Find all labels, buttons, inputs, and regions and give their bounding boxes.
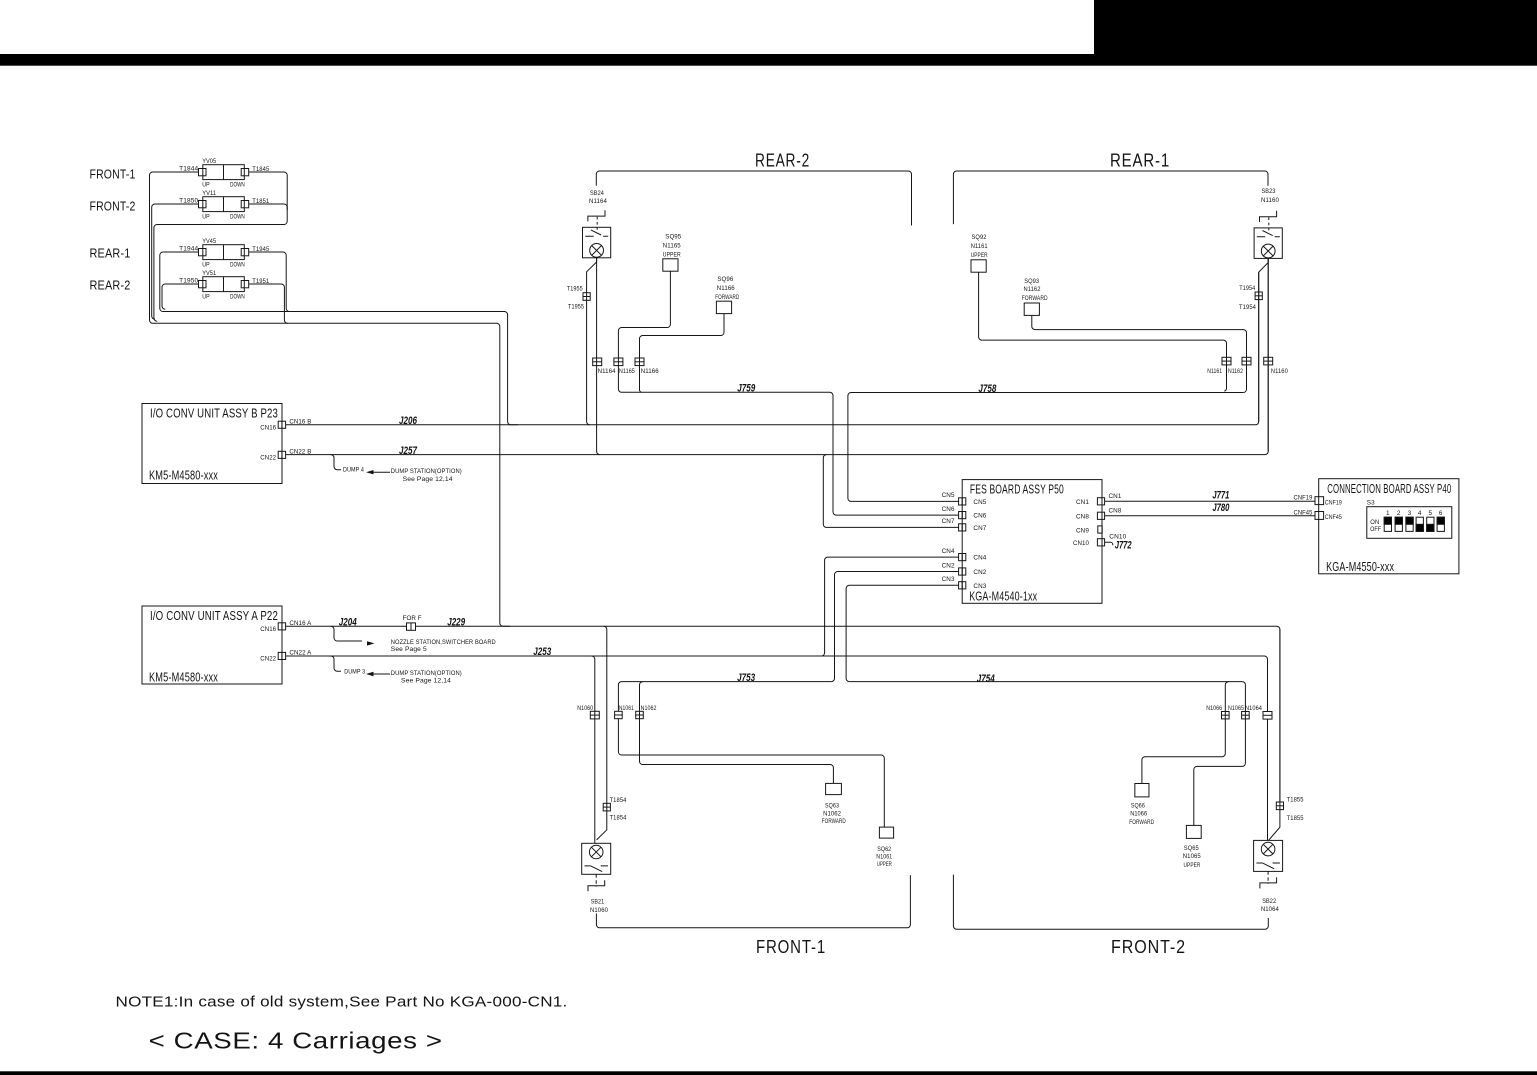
- svg-text:CNF19: CNF19: [1325, 499, 1342, 506]
- svg-text:REAR-1: REAR-1: [90, 247, 131, 261]
- wire J780: [1105, 515, 1315, 517]
- svg-text:FRONT-2: FRONT-2: [1111, 937, 1186, 957]
- sensor SQ95 body: [663, 259, 678, 271]
- svg-text:UP: UP: [202, 182, 210, 189]
- dip switch pos 2 ON fill: [1395, 517, 1402, 524]
- wire J204 segment: [286, 625, 407, 627]
- connector T1854: [603, 803, 610, 811]
- svg-text:FORWARD: FORWARD: [822, 818, 846, 825]
- sensor SQ63 body: [826, 783, 842, 794]
- dip switch pos 4 OFF fill: [1416, 524, 1423, 531]
- arrowhead DUMP 4: [366, 470, 374, 474]
- lamp SB24 circle: [590, 244, 604, 258]
- connector CN2 FES divider: [961, 568, 963, 575]
- valve YV51 divider: [223, 277, 225, 292]
- connector N1160 divider: [1264, 360, 1273, 362]
- valve YV45 body: [203, 245, 245, 260]
- sensor SQ92 body: [971, 260, 986, 272]
- svg-text:N1166: N1166: [717, 285, 735, 292]
- wire SQ96 to N1166: [640, 314, 725, 393]
- svg-text:N1161: N1161: [971, 243, 988, 250]
- arrowhead DUMP 3: [366, 672, 374, 676]
- wire N1064 lower: [1267, 719, 1269, 840]
- svg-text:J753: J753: [737, 672, 755, 684]
- wire bus J758: [848, 393, 1243, 502]
- svg-text:DUMP STATION(OPTION): DUMP STATION(OPTION): [391, 670, 462, 677]
- svg-text:REAR-1: REAR-1: [1110, 150, 1170, 170]
- connector N1066 divider: [1222, 714, 1230, 716]
- svg-text:CN4: CN4: [973, 555, 986, 562]
- svg-text:N1065: N1065: [1228, 705, 1244, 712]
- svg-text:DOWN: DOWN: [230, 262, 245, 269]
- connector CN3 FES divider: [961, 582, 963, 589]
- connector N1060: [590, 711, 599, 719]
- svg-text:N1061: N1061: [619, 705, 634, 712]
- svg-text:YV51: YV51: [202, 270, 216, 277]
- svg-text:SB22: SB22: [1262, 898, 1276, 905]
- wire SB23 T1954 branch: [1259, 258, 1269, 421]
- svg-text:SQ95: SQ95: [665, 234, 681, 241]
- wire YV51 right to L2: [249, 284, 288, 323]
- svg-text:FORWARD: FORWARD: [1022, 295, 1048, 302]
- connector N1061 divider: [615, 714, 623, 716]
- sensor SQ96 body: [716, 301, 731, 313]
- svg-text:REAR-2: REAR-2: [755, 150, 810, 170]
- connector N1166 divider: [635, 361, 644, 363]
- dip switch S3 frame: [1367, 507, 1452, 539]
- actuator SB22 dashed link: [1267, 871, 1269, 884]
- svg-text:J253: J253: [533, 646, 551, 658]
- switch SB23 body: [1254, 228, 1282, 259]
- wire CN7 riser: [823, 455, 958, 528]
- connector T1855: [1276, 802, 1283, 810]
- svg-text:UPPER: UPPER: [971, 252, 988, 259]
- wire YV05 left to trunk: [150, 172, 511, 626]
- valve YV45 right pin: [241, 249, 249, 256]
- svg-text:CN16 A: CN16 A: [289, 620, 312, 627]
- svg-text:KM5-M4580-xxx: KM5-M4580-xxx: [149, 671, 218, 685]
- svg-text:N1064: N1064: [1245, 705, 1262, 712]
- valve YV05 right pin: [241, 169, 249, 176]
- connector N1164 divider: [593, 361, 602, 363]
- wire YV45 right to L1: [249, 252, 290, 312]
- svg-text:J759: J759: [737, 383, 756, 395]
- actuator SB21 dashed link: [595, 874, 597, 887]
- actuator SB24 bracket: [588, 210, 605, 221]
- connector CN22 B divider: [281, 451, 283, 458]
- actuator SB21 bracket: [588, 880, 605, 891]
- valve YV51 body: [203, 277, 245, 292]
- svg-text:CN1: CN1: [1076, 499, 1089, 506]
- svg-text:DOWN: DOWN: [230, 182, 245, 189]
- svg-text:CN22 A: CN22 A: [289, 650, 312, 657]
- svg-text:J754: J754: [977, 673, 995, 685]
- actuator SB23 bracket: [1260, 211, 1277, 222]
- svg-text:J229: J229: [447, 616, 466, 628]
- connector T1954: [1255, 292, 1262, 300]
- svg-text:UPPER: UPPER: [877, 861, 892, 868]
- svg-text:CN7: CN7: [942, 518, 955, 525]
- svg-text:SQ62: SQ62: [877, 846, 891, 853]
- connector N1064 divider: [1263, 714, 1272, 716]
- arrowhead NOZZLE STATION: [367, 641, 375, 645]
- svg-text:5: 5: [1428, 510, 1432, 517]
- svg-text:YV45: YV45: [202, 238, 216, 245]
- connector CN2 FES: [959, 568, 966, 575]
- svg-text:SQ92: SQ92: [972, 234, 987, 241]
- wire bus J759: [622, 392, 959, 515]
- svg-text:T1851: T1851: [252, 198, 269, 205]
- svg-text:CN3: CN3: [973, 583, 986, 590]
- connector N1066: [1222, 712, 1230, 719]
- svg-text:SQ96: SQ96: [717, 276, 733, 283]
- connector CN8 FES: [1097, 512, 1104, 519]
- connector N1165: [614, 358, 623, 366]
- bracket FRONT-2 zone: [953, 875, 1268, 930]
- lamp SB21 circle: [589, 845, 603, 859]
- header black block top-right: [1094, 0, 1537, 54]
- connector N1162 divider: [1242, 360, 1251, 362]
- dip switch pos 5 frame: [1427, 517, 1434, 531]
- dip switch pos 2 frame: [1395, 517, 1402, 531]
- valve YV05 body: [203, 165, 245, 180]
- bracket FRONT-1 zone: [596, 875, 910, 928]
- connector N1062 divider: [636, 714, 644, 716]
- wire bus J754: [849, 681, 1242, 683]
- svg-text:UP: UP: [202, 214, 210, 221]
- wire J771: [1105, 500, 1315, 502]
- svg-text:N1060: N1060: [577, 705, 593, 712]
- svg-text:J257: J257: [399, 445, 418, 457]
- svg-text:FRONT-1: FRONT-1: [90, 168, 136, 182]
- valve YV51 left pin: [199, 281, 207, 288]
- svg-text:CN1: CN1: [1109, 493, 1122, 500]
- lamp SB21 cross: [591, 847, 601, 857]
- connector FOR F divider: [410, 623, 412, 630]
- svg-text:T1954: T1954: [1239, 285, 1255, 292]
- svg-text:J771: J771: [1212, 489, 1229, 501]
- svg-text:4: 4: [1418, 510, 1422, 517]
- I/O CONV UNIT ASSY A P22 box: [142, 606, 282, 684]
- svg-text:REAR-2: REAR-2: [90, 279, 131, 293]
- wire CN2 drop: [831, 572, 958, 682]
- dip switch pos 3 ON fill: [1406, 517, 1413, 524]
- switch SB21 body: [582, 843, 611, 874]
- wire J253: [286, 656, 1268, 712]
- wire YV05 right return: [154, 172, 287, 321]
- lamp SB22 cross: [1263, 844, 1273, 854]
- connector CN8 FES divider: [1101, 512, 1103, 519]
- svg-text:N1161: N1161: [1207, 368, 1222, 375]
- connector N1166: [635, 358, 644, 366]
- connector CN1 FES divider: [1101, 498, 1103, 505]
- svg-text:CNF45: CNF45: [1325, 514, 1342, 521]
- dip switch pos 5 OFF fill: [1427, 524, 1434, 531]
- svg-text:T1855: T1855: [1287, 797, 1304, 804]
- svg-text:SQ93: SQ93: [1024, 278, 1039, 285]
- svg-text:SQ65: SQ65: [1184, 845, 1199, 852]
- svg-text:SQ63: SQ63: [825, 803, 839, 810]
- wire YV45 left to trunk: [160, 252, 518, 425]
- svg-text:T1954: T1954: [1239, 304, 1256, 311]
- sensor SQ66 body: [1135, 784, 1149, 797]
- svg-text:UP: UP: [202, 294, 210, 301]
- svg-text:CNF19: CNF19: [1294, 495, 1313, 502]
- svg-text:SQ66: SQ66: [1131, 802, 1145, 809]
- wire SB24 N1164: [597, 258, 600, 455]
- connector N1161: [1222, 357, 1231, 365]
- wire N1062 drop to SQ63: [640, 682, 834, 784]
- svg-text:CN2: CN2: [973, 569, 986, 576]
- connector N1162: [1242, 357, 1251, 365]
- connector CN16 B divider: [281, 421, 283, 428]
- wire SB23 N1160: [1267, 258, 1269, 451]
- connector CN22 B: [278, 451, 285, 458]
- svg-text:CN3: CN3: [942, 576, 955, 583]
- svg-text:J772: J772: [1115, 540, 1132, 552]
- svg-text:CN22: CN22: [260, 656, 276, 663]
- connector CNF45: [1315, 512, 1324, 520]
- svg-text:J206: J206: [399, 415, 418, 427]
- connector T1955 divider: [583, 296, 590, 298]
- wire SQ92 to N1161: [979, 272, 1227, 391]
- svg-text:SB24: SB24: [590, 190, 604, 197]
- connector CN16 A: [278, 623, 285, 630]
- svg-text:FRONT-1: FRONT-1: [756, 937, 826, 957]
- wire J206: [286, 272, 1259, 425]
- wire N1060 drop: [592, 656, 595, 843]
- svg-text:CN9: CN9: [1076, 527, 1089, 534]
- valve YV11 left pin: [199, 201, 207, 208]
- connector T1955: [583, 293, 590, 301]
- dip switch pos 3 frame: [1406, 517, 1413, 531]
- wire T1854 drop: [597, 626, 607, 840]
- wire DUMP 3 branch: [331, 656, 341, 671]
- svg-text:KGA-M4540-1xx: KGA-M4540-1xx: [969, 590, 1037, 604]
- dip switch pos 6 ON fill: [1437, 517, 1444, 524]
- connector CNF19: [1315, 497, 1324, 505]
- connector N1160: [1264, 357, 1273, 365]
- connector FOR F inline: [407, 623, 416, 630]
- actuator SB23 dashed link: [1268, 217, 1270, 232]
- connector CN10 FES divider: [1101, 539, 1103, 546]
- svg-text:N1062: N1062: [823, 810, 841, 817]
- connector CN5 FES: [959, 498, 966, 505]
- connector CN7 FES: [959, 524, 966, 531]
- svg-text:N1164: N1164: [598, 368, 616, 375]
- svg-text:N1160: N1160: [1271, 368, 1288, 375]
- CONNECTION BOARD ASSY P40 box: [1319, 479, 1459, 574]
- connector CN7 FES divider: [961, 524, 963, 531]
- sensor SQ93 body: [1024, 303, 1039, 315]
- svg-text:CN7: CN7: [973, 525, 986, 532]
- svg-text:T1955: T1955: [568, 303, 584, 310]
- connector N1061: [615, 711, 623, 718]
- connector CN10 FES: [1097, 539, 1104, 546]
- connector N1164: [593, 358, 602, 366]
- svg-text:CN16: CN16: [260, 424, 276, 431]
- svg-text:See Page 12,14: See Page 12,14: [403, 476, 453, 483]
- connector CN22 A: [278, 652, 285, 659]
- switch SB22 body: [1254, 840, 1283, 871]
- svg-text:J758: J758: [978, 383, 997, 395]
- svg-text:N1061: N1061: [876, 853, 892, 860]
- connector CN22 A divider: [281, 652, 283, 659]
- svg-text:FORWARD: FORWARD: [1129, 819, 1154, 826]
- valve YV05 divider: [223, 165, 225, 180]
- wire J257: [286, 259, 1269, 455]
- connector CN9 FES: [1098, 526, 1102, 533]
- svg-text:< CASE: 4 Carriages >: < CASE: 4 Carriages >: [149, 1028, 443, 1054]
- switch SB24 body: [583, 227, 611, 257]
- bracket REAR-2 zone: [596, 171, 911, 226]
- svg-text:UPPER: UPPER: [1184, 862, 1201, 869]
- svg-text:CN8: CN8: [1109, 508, 1122, 515]
- dip switch pos 1 frame: [1384, 517, 1391, 531]
- dip switch pos 6 frame: [1437, 517, 1444, 531]
- svg-text:N1164: N1164: [589, 198, 607, 205]
- actuator SB22 bracket: [1260, 877, 1277, 888]
- svg-text:CN4: CN4: [942, 548, 955, 555]
- svg-text:J204: J204: [339, 616, 357, 628]
- svg-text:DUMP 4: DUMP 4: [343, 467, 364, 474]
- svg-text:DUMP 3: DUMP 3: [344, 668, 365, 675]
- wire YV51 left join trunk: [162, 284, 199, 309]
- svg-text:I/O CONV UNIT ASSY B P23: I/O CONV UNIT ASSY B P23: [150, 407, 278, 421]
- connector N1065 divider: [1242, 714, 1250, 716]
- connector CN16 B: [278, 421, 285, 428]
- switch SB23 contact: [1257, 231, 1280, 237]
- svg-text:UP: UP: [202, 262, 210, 269]
- svg-text:SB23: SB23: [1262, 188, 1276, 195]
- wire J772 stub: [1105, 542, 1113, 545]
- svg-text:CN2: CN2: [942, 562, 955, 569]
- switch SB24 contact: [585, 230, 608, 236]
- svg-text:T1945: T1945: [252, 246, 269, 253]
- I/O CONV UNIT ASSY B P23 box: [142, 404, 282, 484]
- connector CN3 FES: [959, 582, 966, 589]
- wire DUMP 3 arrow line: [369, 673, 390, 675]
- svg-text:T1944: T1944: [179, 246, 198, 253]
- svg-text:N1066: N1066: [1130, 811, 1147, 818]
- svg-text:CN10: CN10: [1073, 540, 1089, 547]
- wire SQ93 to N1162: [1032, 315, 1247, 392]
- connector CN16 A divider: [281, 623, 283, 630]
- lamp SB23 circle: [1261, 244, 1275, 258]
- svg-text:6: 6: [1439, 510, 1443, 517]
- svg-text:CN22 B: CN22 B: [289, 448, 311, 455]
- svg-text:FES BOARD ASSY P50: FES BOARD ASSY P50: [970, 482, 1064, 496]
- wire N1065 end drop to SQ65: [1194, 682, 1246, 826]
- connector CN1 FES: [1097, 498, 1104, 505]
- svg-text:NOTE1:In case of old system,Se: NOTE1:In case of old system,See Part No …: [116, 995, 568, 1011]
- connector CN4 FES divider: [961, 554, 963, 561]
- svg-text:CN6: CN6: [942, 506, 955, 513]
- lamp SB23 cross: [1263, 246, 1273, 256]
- wire DUMP 4 branch: [331, 455, 341, 470]
- svg-text:DOWN: DOWN: [230, 214, 245, 221]
- svg-text:J780: J780: [1212, 502, 1230, 514]
- wire T1855 drop lower: [1269, 629, 1280, 840]
- wire YV11 right join return: [249, 204, 288, 210]
- connector T1954 divider: [1255, 295, 1262, 297]
- connector N1065: [1242, 712, 1250, 719]
- svg-text:CN5: CN5: [942, 492, 955, 499]
- valve YV51 right pin: [241, 281, 249, 288]
- svg-text:DOWN: DOWN: [230, 294, 245, 301]
- connector CN5 FES divider: [961, 498, 963, 505]
- valve YV45 left pin: [199, 249, 207, 256]
- header black rule full width: [0, 54, 1537, 66]
- bracket REAR-1 zone: [953, 171, 1268, 224]
- svg-text:FRONT-2: FRONT-2: [90, 200, 136, 214]
- wire SB24 T1955 branch: [587, 258, 597, 425]
- svg-text:N1064: N1064: [1261, 906, 1279, 913]
- wire N1066 drop to SQ66: [1142, 682, 1229, 784]
- svg-text:N1162: N1162: [1024, 286, 1041, 293]
- wire YV11 left join trunk: [152, 204, 199, 319]
- svg-text:N1165: N1165: [619, 368, 635, 375]
- switch SB22 contact: [1256, 863, 1280, 869]
- svg-text:T1950: T1950: [179, 278, 198, 285]
- svg-text:N1065: N1065: [1183, 853, 1201, 860]
- svg-text:T1855: T1855: [1287, 815, 1304, 822]
- connector CN6 FES: [959, 512, 966, 519]
- svg-text:2: 2: [1397, 510, 1401, 517]
- valve YV11 body: [203, 197, 245, 212]
- svg-text:N1066: N1066: [1206, 705, 1222, 712]
- svg-text:FORWARD: FORWARD: [715, 294, 739, 301]
- svg-text:NOZZLE STATION,SWITCHER BOARD: NOZZLE STATION,SWITCHER BOARD: [391, 639, 496, 646]
- svg-text:N1165: N1165: [663, 242, 681, 249]
- connector N1161 divider: [1222, 360, 1231, 362]
- svg-text:CN16 B: CN16 B: [289, 418, 311, 425]
- svg-text:T1951: T1951: [252, 278, 269, 285]
- wire DUMP 4 arrow line: [369, 471, 390, 473]
- svg-text:CN5: CN5: [973, 499, 986, 506]
- sensor SQ65 body: [1186, 825, 1201, 838]
- wire SQ95 to N1165: [618, 271, 670, 392]
- connector T1854 divider: [603, 806, 610, 808]
- wire N1061 drop to SQ62: [618, 719, 884, 827]
- svg-text:N1160: N1160: [1261, 197, 1279, 204]
- svg-text:S3: S3: [1367, 499, 1375, 506]
- svg-text:1: 1: [1386, 510, 1390, 517]
- valve YV11 right pin: [241, 201, 249, 208]
- svg-text:T1845: T1845: [252, 166, 269, 173]
- svg-text:T1850: T1850: [179, 198, 198, 205]
- connector T1855 divider: [1276, 805, 1283, 807]
- svg-text:I/O CONV UNIT ASSY A P22: I/O CONV UNIT ASSY A P22: [150, 609, 278, 623]
- connector N1064: [1263, 712, 1272, 720]
- svg-text:CN16: CN16: [260, 626, 276, 633]
- svg-text:T1854: T1854: [610, 797, 627, 804]
- svg-text:CN22: CN22: [260, 454, 276, 461]
- svg-text:DUMP STATION(OPTION): DUMP STATION(OPTION): [391, 468, 462, 475]
- svg-text:CNF45: CNF45: [1294, 509, 1313, 516]
- svg-text:CN6: CN6: [973, 513, 986, 520]
- svg-text:N1162: N1162: [1228, 368, 1243, 375]
- svg-text:N1166: N1166: [641, 368, 659, 375]
- svg-text:See Page 5: See Page 5: [391, 646, 427, 653]
- actuator SB24 dashed link: [596, 217, 598, 232]
- svg-text:CN8: CN8: [1076, 514, 1089, 521]
- svg-text:YV05: YV05: [202, 158, 216, 165]
- footer black rule: [0, 1071, 1537, 1075]
- lamp SB22 circle: [1261, 842, 1275, 856]
- svg-text:See Page 12,14: See Page 12,14: [401, 678, 451, 685]
- svg-text:FOR F: FOR F: [403, 615, 422, 622]
